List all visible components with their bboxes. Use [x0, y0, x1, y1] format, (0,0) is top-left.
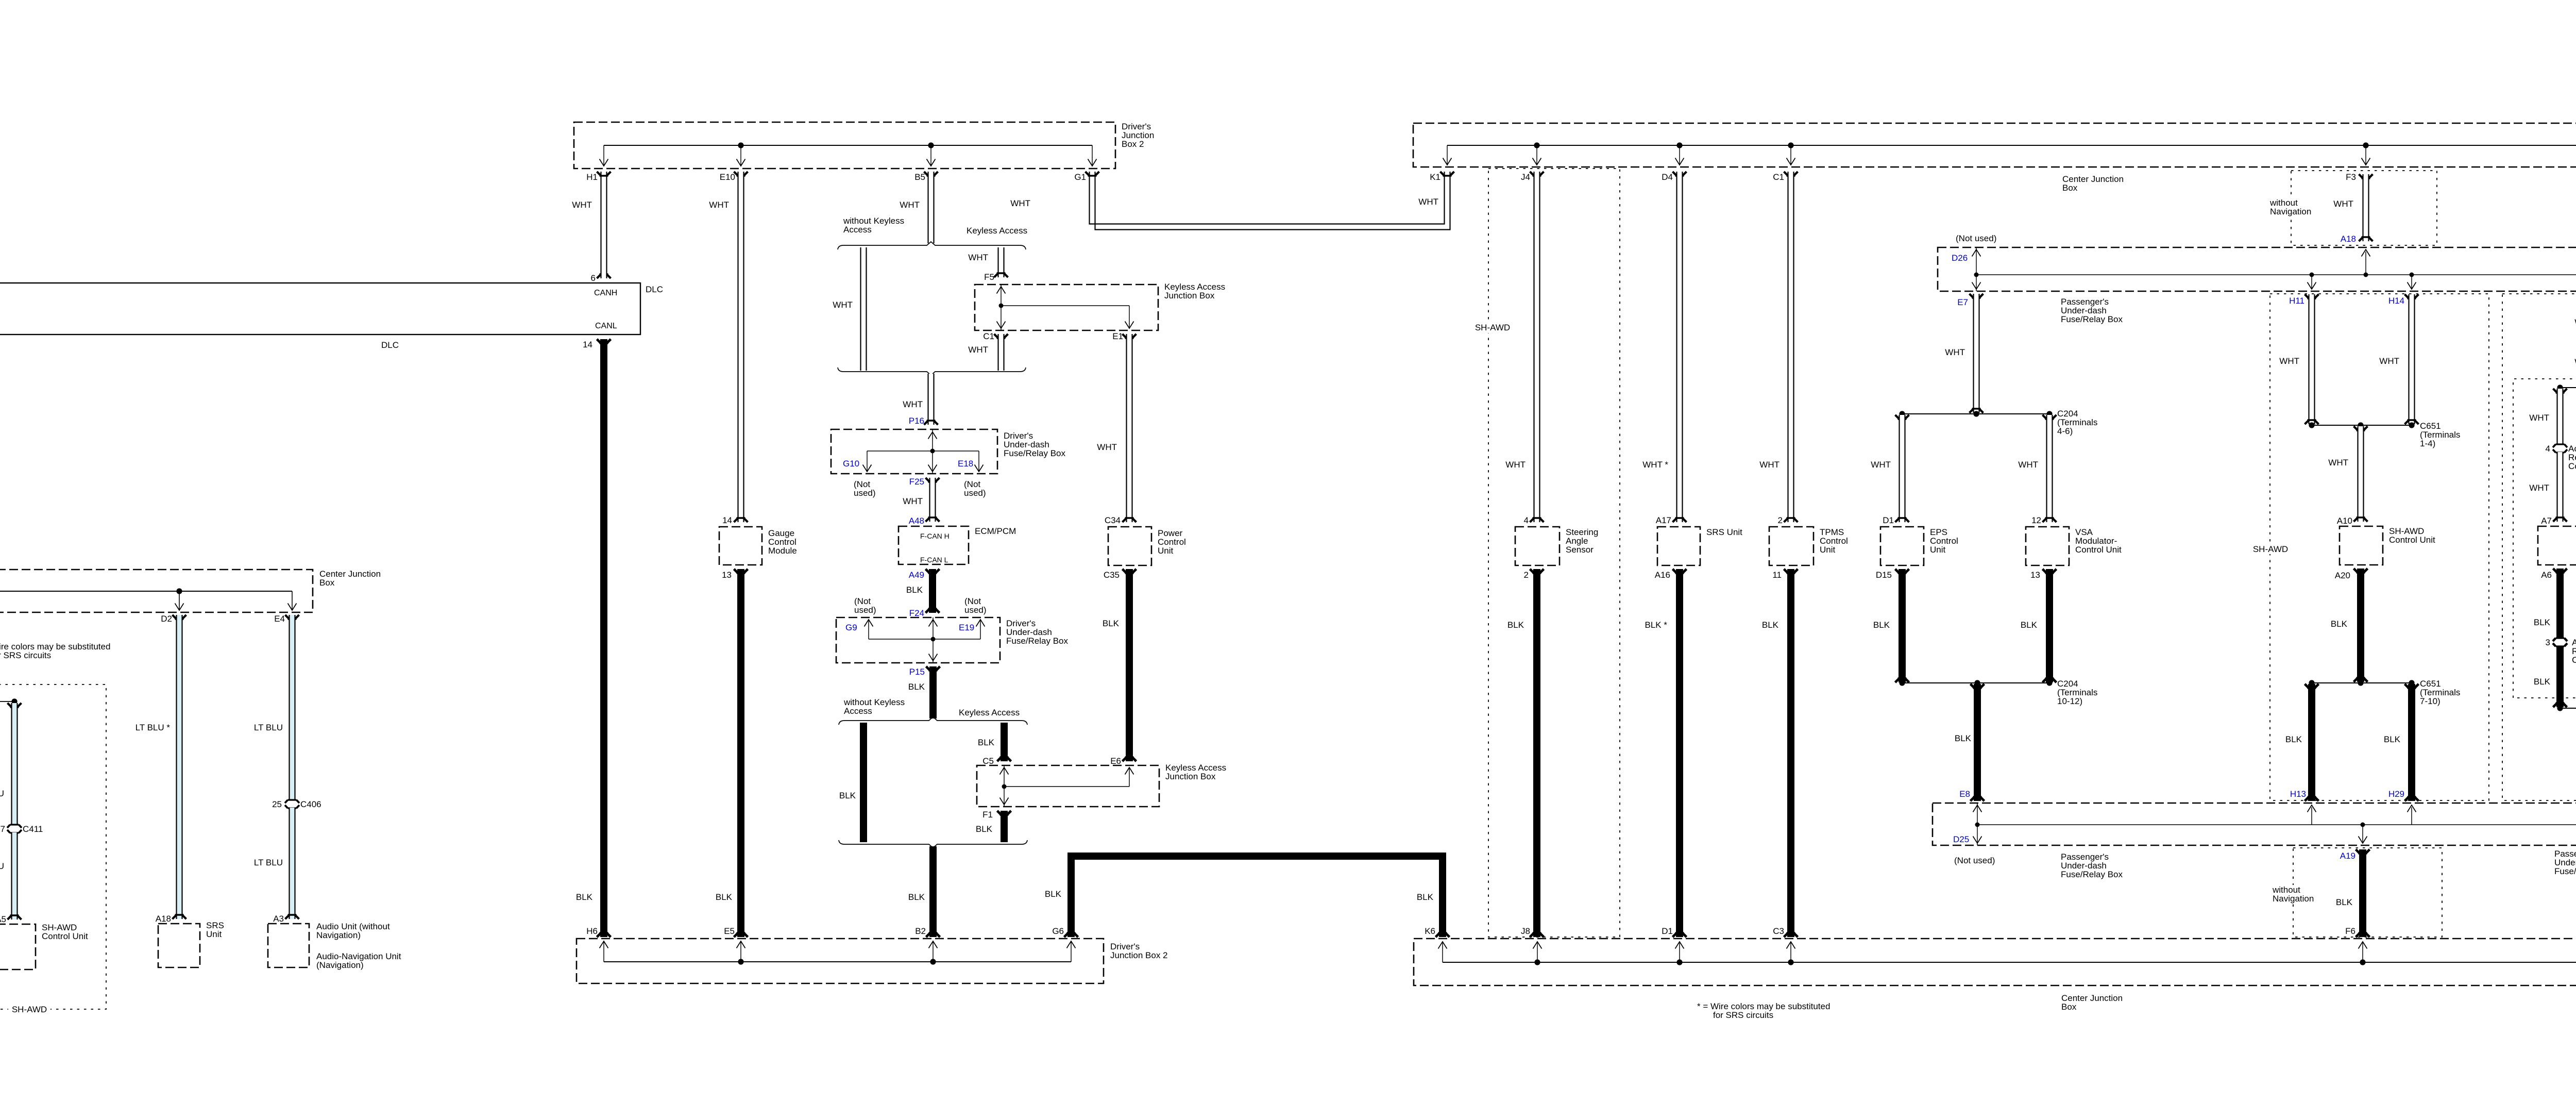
- terminal C5 (Keyless Access Junction Box lower): [997, 757, 1011, 762]
- terminal E1 (Keyless Access Junction Box): [1123, 334, 1137, 339]
- junction box: Driver's Under-dash Fuse/Relay Box (upper): [831, 429, 997, 474]
- junction box: Passenger's Under-dash Fuse/Relay Box (top): [1938, 247, 2576, 291]
- junction box: Driver's Under-dash Fuse/Relay Box (lower): [836, 617, 1000, 663]
- connector 25 C406 inline: [288, 799, 297, 800]
- svg-text:WHT: WHT: [2333, 199, 2353, 209]
- terminal C34 (Power Control Unit): [1123, 518, 1137, 523]
- internal vertical E8-D25: [1977, 803, 1978, 845]
- bus inside Passenger's box (top): [1976, 274, 2576, 275]
- svg-text:B5: B5: [914, 172, 925, 182]
- wire: BLK G6 to K6 (thick elbow run): [1071, 856, 1443, 937]
- svg-text:K6: K6: [1425, 926, 1435, 936]
- svg-text:BLK: BLK: [1762, 620, 1779, 630]
- wire: WHT J4 to Steering Angle Sensor 4: [1534, 172, 1540, 522]
- node: junction dot at D2 drop: [176, 588, 182, 594]
- svg-text:DLC: DLC: [381, 340, 399, 350]
- node: dot at D26/E7: [1974, 273, 1979, 277]
- svg-text:BLK: BLK: [1873, 620, 1890, 630]
- svg-text:G10: G10: [843, 459, 859, 469]
- svg-text:H13: H13: [2290, 789, 2306, 799]
- svg-text:K1: K1: [1430, 172, 1440, 182]
- arrow up to A18: [2365, 252, 2366, 275]
- arrow from C3: [1790, 942, 1791, 962]
- svg-text:4: 4: [2546, 444, 2550, 454]
- unit: Power Control Unit: [1108, 527, 1151, 565]
- wire: LT BLU from E4 upper segment: [289, 615, 296, 800]
- svg-text:A49: A49: [909, 570, 924, 580]
- wire: LT BLU * from D2 to SRS Unit A18: [176, 615, 183, 919]
- arrow from D1: [1679, 942, 1680, 962]
- svg-text:Box: Box: [319, 578, 335, 588]
- svg-text:BLK: BLK: [2331, 619, 2348, 629]
- svg-text:Box: Box: [2062, 183, 2078, 193]
- svg-text:A20: A20: [2335, 571, 2350, 580]
- svg-text:BLK: BLK: [2336, 897, 2353, 907]
- svg-text:25: 25: [272, 799, 282, 809]
- svg-text:for SRS circuits: for SRS circuits: [1713, 1010, 1773, 1020]
- svg-text:SH-AWD: SH-AWD: [2253, 544, 2288, 554]
- node: dot at J8: [1534, 959, 1540, 965]
- arrow from G6: [1071, 942, 1072, 962]
- arrow from E5: [740, 942, 741, 962]
- svg-text:Fuse/Relay Box: Fuse/Relay Box: [2554, 866, 2576, 876]
- node: dot at H11: [2310, 273, 2314, 277]
- arrow to F3 jumper: [2365, 145, 2366, 164]
- internal line to E1: [1001, 305, 1129, 306]
- svg-text:D15: D15: [1876, 570, 1892, 580]
- svg-text:BLK: BLK: [908, 682, 925, 692]
- svg-text:BLK: BLK: [2534, 677, 2551, 687]
- wire: WHT from B5 down to option split: [928, 172, 935, 243]
- svg-text:E19: E19: [959, 623, 974, 632]
- wire: BLK Steering Angle Sensor 2 to J8: [1533, 569, 1540, 937]
- svg-text:F-CAN H: F-CAN H: [920, 532, 950, 540]
- svg-text:G6: G6: [1052, 926, 1064, 936]
- svg-text:used): used): [854, 605, 876, 615]
- svg-text:used): used): [964, 605, 987, 615]
- wire: WHT to EPS Control Unit D1: [1895, 415, 1909, 420]
- svg-text:F24: F24: [909, 608, 924, 618]
- terminal A3 (Audio Unit): [285, 915, 299, 920]
- svg-text:WHT: WHT: [709, 200, 729, 210]
- junction: C204 (Terminals 4-6): [1902, 413, 2049, 414]
- bus inside Center Junction Box (top): [1447, 145, 2576, 146]
- arrow from H6: [603, 942, 604, 962]
- svg-text:E4: E4: [274, 614, 285, 624]
- wire: BLK VSA 13 to C204 lower: [2046, 569, 2053, 682]
- junction: C204 (Terminals 10-12): [1902, 682, 2049, 683]
- svg-text:WHT: WHT: [1418, 197, 1438, 207]
- svg-text:LT BLU: LT BLU: [0, 861, 4, 871]
- svg-text:WHT: WHT: [1505, 460, 1526, 470]
- junction: C506 (Terminals 1-4): [2560, 387, 2576, 388]
- svg-text:D4: D4: [1662, 172, 1673, 182]
- terminal D1 (EPS Control Unit): [1895, 518, 1909, 523]
- terminal F24 (Driver's Under-dash Fuse/Relay Box lower): [926, 609, 940, 613]
- node: dot at D4: [1676, 142, 1682, 148]
- terminal J8: [1530, 933, 1544, 938]
- svg-text:(Navigation): (Navigation): [316, 960, 364, 970]
- arrow to D4: [1679, 145, 1680, 164]
- svg-text:WHT: WHT: [2328, 458, 2348, 467]
- terminal 2 (TPMS Control Unit): [1784, 518, 1798, 523]
- svg-text:BLK: BLK: [2285, 734, 2302, 744]
- svg-text:4: 4: [1524, 515, 1529, 525]
- terminal G6: [1064, 933, 1078, 938]
- svg-text:WHT: WHT: [572, 200, 592, 210]
- svg-text:Box 2: Box 2: [1122, 139, 1144, 149]
- svg-text:A10: A10: [2337, 516, 2352, 526]
- svg-text:BLK: BLK: [1417, 892, 1434, 902]
- svg-text:A6: A6: [2541, 570, 2552, 580]
- node: dot at C1: [1788, 142, 1793, 148]
- terminal K6: [1436, 933, 1450, 938]
- arrow to J4: [1536, 145, 1537, 164]
- svg-text:(Not used): (Not used): [1956, 233, 1996, 243]
- svg-text:C406: C406: [300, 799, 321, 809]
- internal vertical P16-F25: [932, 429, 933, 474]
- option region: SH-AWD (right, dotted): [2270, 294, 2489, 800]
- svg-text:A18: A18: [2341, 234, 2356, 244]
- bus inside left Center Junction Box: [0, 591, 292, 592]
- svg-text:C34: C34: [1105, 515, 1121, 525]
- svg-text:WHT: WHT: [2529, 413, 2549, 423]
- wire: WHT without-Keyless branch: [860, 247, 867, 371]
- wire: BLK EPS D15 to C204 lower: [1899, 569, 1906, 682]
- svg-text:BLK: BLK: [1955, 733, 1972, 743]
- node: dot at D1: [1676, 959, 1682, 965]
- svg-text:E1: E1: [1112, 331, 1123, 341]
- svg-text:G1: G1: [1074, 172, 1086, 182]
- svg-text:BLK: BLK: [576, 892, 593, 902]
- wire: WHT Keyless branch to F5: [998, 247, 1005, 277]
- unit: SH-AWD Control Unit (left): [0, 924, 36, 970]
- svg-text:BLK: BLK: [839, 791, 856, 800]
- svg-text:F5: F5: [984, 272, 994, 282]
- node: dot at B5: [928, 142, 934, 148]
- svg-text:WHT: WHT: [833, 300, 853, 310]
- svg-text:WHT: WHT: [1010, 198, 1030, 208]
- terminal H6: [597, 933, 611, 938]
- unit: EPS Control Unit: [1880, 527, 1924, 565]
- wire: BLK Gauge Control Module 13 to E5: [737, 569, 744, 937]
- arrow down to H11: [2311, 275, 2312, 289]
- svg-text:D2: D2: [161, 614, 172, 624]
- svg-text:3: 3: [2546, 638, 2550, 647]
- internal line to E6: [1004, 786, 1129, 787]
- svg-text:A19: A19: [2340, 851, 2355, 861]
- svg-text:P15: P15: [909, 667, 925, 677]
- svg-text:Access: Access: [843, 225, 872, 235]
- terminal D1 (Center Junction Box): [1673, 933, 1687, 938]
- terminal K1 collar: [1440, 172, 1454, 176]
- svg-text:BLK: BLK: [906, 585, 923, 595]
- svg-text:used): used): [854, 488, 876, 498]
- wire: WHT F25 to ECM/PCM A48: [929, 478, 936, 522]
- option region: SH-AWD (Steering Angle Sensor, dotted): [1488, 169, 1620, 937]
- wire: LT BLU tap from left edge: [0, 701, 14, 702]
- svg-text:4-6): 4-6): [2057, 426, 2073, 436]
- unit: SRS Unit (left): [158, 924, 200, 967]
- svg-text:C3: C3: [1773, 926, 1784, 936]
- unit: ECM/PCM: [899, 526, 969, 564]
- wire: LT BLU from C406 to Audio Unit A3: [289, 808, 296, 919]
- arrow from F6 jumper: [2362, 942, 2363, 962]
- terminal 2 (Steering Angle Sensor): [1530, 569, 1544, 574]
- option region: SH-AWD (far left, dotted): [0, 684, 106, 1009]
- internal bus to G9 and E19: [869, 639, 980, 640]
- svg-text:Module: Module: [768, 546, 797, 556]
- svg-text:C35: C35: [1104, 570, 1120, 580]
- svg-text:CANL: CANL: [595, 322, 617, 330]
- svg-text:DLC: DLC: [646, 285, 663, 294]
- svg-text:LT BLU: LT BLU: [0, 789, 4, 798]
- svg-text:BLK *: BLK *: [1645, 620, 1668, 630]
- bus inside Driver's Junction Box 2: [604, 145, 1092, 146]
- terminal P16 (Driver's Under-dash Fuse/Relay Box): [924, 421, 938, 425]
- svg-text:12: 12: [2031, 515, 2041, 525]
- arrow to H1: [603, 145, 604, 165]
- svg-text:F3: F3: [2346, 172, 2356, 182]
- svg-text:F25: F25: [909, 477, 924, 487]
- svg-text:WHT: WHT: [2018, 460, 2038, 470]
- svg-text:7-10): 7-10): [2420, 696, 2441, 706]
- svg-text:D1: D1: [1662, 926, 1673, 936]
- svg-text:used): used): [964, 488, 986, 498]
- svg-text:BLK: BLK: [2534, 617, 2551, 627]
- node: dot at A19 drop: [2361, 823, 2365, 827]
- terminal F5 (Keyless Access Junction Box): [994, 273, 1008, 278]
- svg-text:Navigation: Navigation: [2270, 207, 2311, 216]
- arrow from H13: [2311, 807, 2312, 825]
- unit: AcuraLink Control Unit (XM Receiver): [2538, 526, 2576, 565]
- svg-text:D25: D25: [1953, 834, 1969, 844]
- unit: Steering Angle Sensor: [1515, 527, 1560, 565]
- bus inside Driver's Junction Box 2 (bottom): [604, 961, 1071, 962]
- svg-text:(Not used): (Not used): [1954, 856, 1995, 865]
- node: dot inside lower Keyless box: [1002, 784, 1007, 789]
- svg-text:BLK: BLK: [978, 738, 995, 747]
- unit: VSA Modulator-Control Unit: [2026, 527, 2069, 565]
- terminal 13 (VSA Modulator-Control Unit): [2043, 569, 2057, 574]
- wire: WHT C1 to merge: [998, 334, 1005, 371]
- svg-text:A17: A17: [1656, 515, 1671, 525]
- node: dot inside Keyless Access Junction Box: [999, 304, 1004, 308]
- connector 4 (AcuraLink Reprogramming Connector): [2556, 443, 2565, 445]
- svg-text:WHT: WHT: [1097, 442, 1117, 452]
- option region: without Navigation (bottom, dotted): [2293, 848, 2442, 937]
- node: dot at F6 jumper: [2360, 959, 2365, 965]
- wire: BLK C35 to E6: [1126, 569, 1133, 761]
- node: dot at E10: [738, 142, 743, 148]
- svg-text:WHT: WHT: [2529, 483, 2549, 493]
- svg-text:A48: A48: [909, 516, 924, 526]
- svg-text:BLK: BLK: [2021, 620, 2038, 630]
- svg-text:Control Unit: Control Unit: [2389, 535, 2435, 545]
- node: dot at E8/D25: [1975, 823, 1980, 827]
- option merge brace (keyless branches rejoin): [838, 367, 1026, 375]
- svg-text:WHT: WHT: [1945, 347, 1965, 357]
- svg-text:Keyless Access: Keyless Access: [967, 226, 1027, 236]
- wire: BLK A49 to F24: [929, 569, 936, 613]
- svg-text:10-12): 10-12): [2057, 696, 2082, 706]
- arrow to B5: [930, 145, 931, 165]
- terminal C3: [1784, 933, 1798, 938]
- svg-text:13: 13: [2030, 570, 2040, 580]
- svg-text:Connector: Connector: [2572, 655, 2576, 665]
- arrow from J8: [1537, 942, 1538, 962]
- bus inside Passenger's box (bottom): [1977, 824, 2576, 825]
- svg-text:E5: E5: [724, 926, 735, 936]
- svg-text:A18: A18: [156, 914, 171, 924]
- node: dot at F3 jumper: [2363, 142, 2368, 148]
- svg-text:H29: H29: [2388, 789, 2404, 799]
- wire: BLK DLC pin 14 to H6: [600, 339, 607, 937]
- svg-text:G9: G9: [845, 623, 857, 632]
- svg-text:E18: E18: [958, 459, 973, 469]
- internal vertical D26-E7: [1976, 247, 1977, 291]
- junction box: Keyless Access Junction Box (lower): [977, 765, 1159, 807]
- wire: BLK A20 to C651 lower: [2357, 569, 2364, 682]
- svg-text:WHT: WHT: [968, 345, 988, 355]
- svg-text:Box: Box: [2061, 1002, 2077, 1012]
- svg-text:Fuse/Relay Box: Fuse/Relay Box: [2061, 314, 2123, 324]
- wire: WHT H14 to C651: [2405, 294, 2419, 299]
- arrow to K1: [1447, 145, 1448, 164]
- svg-text:E7: E7: [1957, 297, 1968, 307]
- junction box: Center Junction Box (top): [1413, 123, 2576, 167]
- junction: C651 (Terminals 7-10): [2312, 682, 2412, 683]
- node: dot at J4: [1534, 142, 1539, 148]
- svg-text:Connector: Connector: [2568, 461, 2576, 471]
- svg-text:B2: B2: [915, 926, 926, 936]
- svg-text:WHT: WHT: [1759, 460, 1780, 470]
- arrow to E10: [740, 145, 741, 165]
- terminal E6 (Keyless Access Junction Box lower): [1123, 757, 1137, 762]
- wire: WHT C506 to AcuraLink Reprogramming Connector 4: [2553, 389, 2567, 393]
- svg-text:A7: A7: [2541, 516, 2552, 526]
- terminal A5 (SH-AWD Control Unit): [8, 915, 22, 920]
- unit: SH-AWD Control Unit: [2340, 526, 2383, 565]
- unit: SRS Unit: [1657, 527, 1700, 565]
- wire: WHT to VSA Modulator-Control Unit 12: [2043, 415, 2057, 420]
- terminal A49 (ECM/PCM F-CAN L): [926, 569, 940, 574]
- terminal A20 (SH-AWD Control Unit): [2354, 569, 2368, 573]
- svg-text:BLK: BLK: [1507, 620, 1524, 630]
- junction box: Center Junction Box (bottom): [1414, 939, 2576, 985]
- wire: WHT F3 jumper to A18: [2359, 174, 2373, 179]
- option region: Navigation (dotted outline): [2502, 172, 2576, 935]
- arrow from K6: [1442, 942, 1443, 962]
- svg-text:H1: H1: [586, 172, 598, 182]
- svg-text:WHT: WHT: [1871, 460, 1891, 470]
- svg-text:Navigation): Navigation): [316, 930, 361, 940]
- wire: WHT E1 to Power Control Unit C34: [1126, 334, 1133, 522]
- svg-text:Fuse/Relay Box: Fuse/Relay Box: [1004, 448, 1065, 458]
- svg-text:D1: D1: [1883, 515, 1894, 525]
- svg-text:LT BLU: LT BLU: [254, 723, 283, 732]
- svg-text:for SRS circuits: for SRS circuits: [0, 650, 51, 660]
- wire: WHT H1 to DLC pin 6: [601, 172, 607, 278]
- junction: C651 (Terminals 1-4): [2312, 425, 2412, 426]
- svg-text:14: 14: [583, 340, 592, 349]
- svg-text:Navigation: Navigation: [2273, 894, 2314, 904]
- svg-text:Fuse/Relay Box: Fuse/Relay Box: [2061, 870, 2123, 879]
- terminal A10 (SH-AWD Control Unit): [2354, 517, 2368, 522]
- svg-text:C5: C5: [982, 756, 994, 766]
- bus inside Center Junction Box (bottom): [1443, 962, 2576, 963]
- arrow to C1: [1790, 145, 1791, 164]
- terminal A17 (SRS Unit): [1673, 518, 1687, 523]
- terminal E7: [1970, 294, 1984, 298]
- option split brace (BLK, without Keyless / Keyless): [839, 717, 1027, 725]
- svg-text:WHT: WHT: [900, 200, 920, 210]
- svg-text:Junction Box: Junction Box: [1164, 291, 1215, 300]
- svg-text:13: 13: [722, 570, 732, 580]
- wire: WHT D4 to SRS Unit A17: [1676, 172, 1683, 522]
- option region: AcuraLink (dotted outline): [2513, 379, 2576, 698]
- svg-text:H14: H14: [2388, 296, 2404, 306]
- wire: BLK SRS Unit A16 to D1: [1676, 569, 1683, 937]
- wire: BLK A19 jumper to F6: [2356, 849, 2370, 854]
- svg-text:H11: H11: [2289, 296, 2304, 306]
- terminal 12 (VSA Modulator-Control Unit): [2043, 518, 2057, 523]
- svg-text:LT BLU *: LT BLU *: [135, 723, 171, 732]
- terminal P15: [926, 666, 940, 671]
- terminal B2: [926, 933, 940, 938]
- wire: BLK A6 to AcuraLink Reprogramming Connector 3: [2556, 569, 2564, 639]
- connector 3 (AcuraLink Reprogramming Connector): [2556, 637, 2565, 639]
- svg-text:A3: A3: [273, 914, 284, 924]
- svg-text:6: 6: [591, 273, 596, 283]
- junction box: Passenger's Under-dash Fuse/Relay Box (bottom): [1933, 803, 2576, 845]
- wire: WHT connector 4 to AcuraLink Control Unit A7: [2557, 452, 2564, 522]
- wire: WHT merged to P16: [928, 374, 935, 425]
- wire: BLK C651 to H13: [2305, 684, 2319, 689]
- terminal 11 (TPMS Control Unit): [1784, 569, 1798, 574]
- svg-text:Unit: Unit: [1820, 545, 1836, 555]
- svg-text:LT BLU: LT BLU: [254, 858, 283, 867]
- wire: BLK connector 3 to C506 lower: [2556, 646, 2564, 707]
- terminal A18 (SRS Unit): [173, 915, 187, 920]
- svg-text:SRS Unit: SRS Unit: [1706, 527, 1742, 537]
- svg-text:C411: C411: [23, 824, 43, 834]
- wire: BLK C204 to E8: [1971, 684, 1985, 689]
- terminal 14 (Gauge Control Module): [734, 518, 748, 523]
- svg-text:CANH: CANH: [594, 289, 617, 297]
- svg-text:7: 7: [1, 824, 5, 834]
- wire: LT BLU from C411 to SH-AWD Control Unit A5: [11, 832, 18, 920]
- svg-text:D26: D26: [1952, 253, 1968, 263]
- svg-text:1-4): 1-4): [2420, 439, 2435, 448]
- terminal F1 (Keyless Access Junction Box lower): [997, 811, 1011, 815]
- terminal A48 (ECM/PCM F-CAN H): [926, 517, 940, 522]
- svg-text:BLK: BLK: [716, 892, 733, 902]
- terminal C1 (Keyless Access Junction Box): [994, 334, 1008, 339]
- wire: BLK F1 to merge: [1001, 811, 1008, 842]
- svg-text:BLK: BLK: [1045, 889, 1062, 899]
- svg-text:BLK: BLK: [1103, 619, 1120, 628]
- node: dot at B2: [930, 959, 936, 964]
- svg-text:ECM/PCM: ECM/PCM: [975, 526, 1016, 536]
- arrow from B2: [933, 942, 934, 962]
- terminal 13 (Gauge Control Module): [734, 569, 748, 574]
- wire: WHT C651 to SH-AWD Control Unit A10: [2354, 426, 2368, 431]
- svg-text:E10: E10: [720, 172, 735, 182]
- svg-text:Unit: Unit: [206, 929, 222, 939]
- svg-text:BLK: BLK: [2384, 734, 2401, 744]
- svg-text:Control Unit: Control Unit: [42, 931, 88, 941]
